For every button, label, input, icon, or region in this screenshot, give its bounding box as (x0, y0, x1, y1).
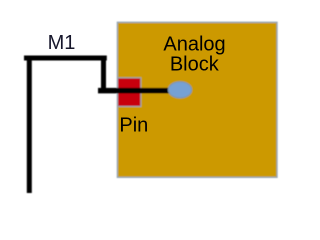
wire M1 top horizontal segment (24, 56, 107, 61)
wire vertical drop segment (101, 56, 106, 93)
wire M1 vertical left segment (27, 56, 32, 193)
svg-text:Block: Block (170, 54, 220, 76)
analog block U1 body (117, 22, 277, 177)
node terminal ellipse (168, 82, 191, 98)
svg-text:Pin: Pin (119, 115, 148, 137)
pin P1 red pad (118, 78, 141, 107)
svg-text:M1: M1 (48, 32, 76, 54)
wire lower horizontal segment to pin (98, 88, 172, 94)
svg-text:Analog: Analog (163, 34, 225, 56)
